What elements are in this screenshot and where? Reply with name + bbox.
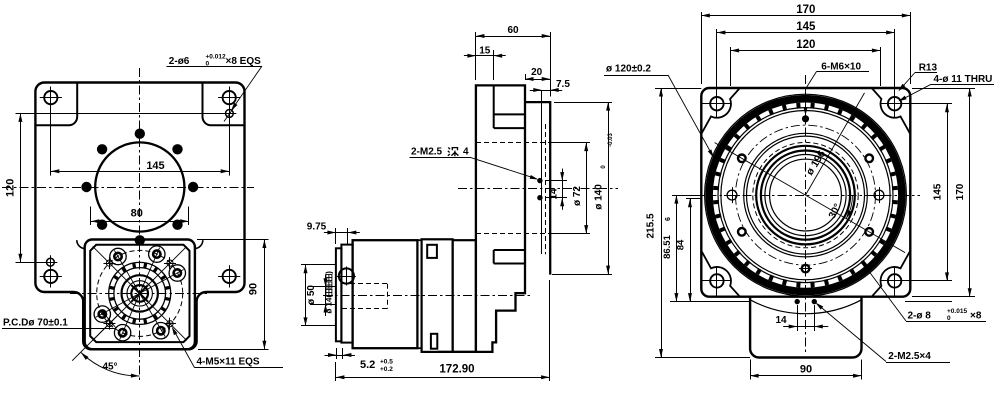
30 deg arc bbox=[846, 195, 852, 219]
svg-text:2-M2.5: 2-M2.5 bbox=[411, 147, 443, 158]
left view corner step notch left bbox=[35, 83, 77, 126]
bearing ring ticks bbox=[165, 287, 170, 288]
svg-text:+0.015: +0.015 bbox=[947, 308, 967, 315]
dim 60 middle bbox=[475, 32, 477, 80]
dim 170 right side bbox=[912, 88, 975, 90]
dim 172.90 bbox=[549, 280, 551, 381]
radial line -30deg bbox=[806, 195, 906, 253]
svg-text:R13: R13 bbox=[919, 62, 938, 73]
svg-text:120: 120 bbox=[5, 179, 17, 197]
dim 90 left view bbox=[197, 239, 269, 241]
motor rear cap body bbox=[341, 245, 352, 343]
svg-text:2-M2.5×4: 2-M2.5×4 bbox=[888, 351, 931, 362]
svg-text:6: 6 bbox=[665, 217, 672, 221]
dim ø140 middle bbox=[554, 102, 612, 104]
bolt circle ø112 dash-dot bbox=[736, 125, 876, 265]
4x locating pins on flange bbox=[167, 260, 173, 266]
motor axis centerline bbox=[323, 295, 531, 297]
motor flange outer outline bbox=[85, 240, 195, 350]
rotary axis centerline bbox=[458, 188, 618, 190]
45 deg dimension arc bbox=[81, 353, 139, 377]
corner ear bottom-right bbox=[872, 251, 911, 297]
svg-text:ø 120±0.2: ø 120±0.2 bbox=[606, 64, 651, 75]
dim 120 top bbox=[730, 47, 732, 86]
front square plate bbox=[701, 88, 910, 297]
svg-text:14: 14 bbox=[775, 315, 787, 326]
svg-text:0: 0 bbox=[947, 315, 951, 322]
svg-text:30°: 30° bbox=[827, 202, 844, 221]
svg-text:ø 50: ø 50 bbox=[306, 285, 317, 305]
screw on motor cap bbox=[339, 268, 354, 283]
svg-text:6-M6×10: 6-M6×10 bbox=[821, 61, 861, 72]
flange bearing ring outer bbox=[109, 262, 171, 324]
corner hole BL bbox=[710, 274, 723, 287]
left view corner step notch right bbox=[203, 83, 245, 126]
svg-text:170: 170 bbox=[796, 4, 815, 16]
2x M2.5 tab holes bbox=[795, 299, 800, 304]
ext line right lower bbox=[905, 301, 952, 303]
clamp lip top bbox=[427, 245, 437, 258]
45 deg diagonal line bbox=[72, 315, 118, 361]
corner hole TL ø11 bbox=[710, 97, 723, 110]
bore circles bbox=[756, 146, 855, 245]
flange radial screw axes bbox=[96, 270, 184, 318]
flange PCD 70 dashed circle bbox=[97, 250, 183, 336]
svg-text:60: 60 bbox=[507, 25, 519, 36]
svg-text:×8 EQS: ×8 EQS bbox=[226, 56, 262, 67]
svg-text:2-ø 8: 2-ø 8 bbox=[908, 311, 932, 322]
dim 90 tab bbox=[750, 360, 752, 380]
svg-text:ø 72: ø 72 bbox=[572, 186, 583, 206]
dim 145 left view bbox=[50, 105, 52, 176]
radial line 60deg to ø196 bbox=[806, 93, 865, 195]
motor body bbox=[353, 240, 418, 348]
dim 14 middle (M2.5 spacing) bbox=[545, 180, 567, 182]
svg-text:5.2: 5.2 bbox=[360, 359, 375, 371]
bottom tab bbox=[750, 297, 861, 358]
front lip edge thin bbox=[541, 90, 543, 254]
hidden motor shaft dashed rect bbox=[342, 283, 387, 285]
svg-text:170: 170 bbox=[955, 183, 966, 200]
svg-text:90: 90 bbox=[247, 283, 259, 295]
radial line 150deg bbox=[715, 143, 806, 196]
svg-text:145: 145 bbox=[933, 183, 944, 200]
corner ear bottom-left bbox=[701, 251, 740, 297]
svg-text:ø 14(: ø 14( bbox=[325, 294, 334, 313]
svg-text:4-ø 11 THRU: 4-ø 11 THRU bbox=[934, 74, 993, 85]
svg-text:4-M5×11 EQS: 4-M5×11 EQS bbox=[197, 357, 260, 368]
motor rear cap outer bbox=[336, 248, 342, 341]
svg-text:): ) bbox=[325, 271, 334, 274]
center bore circle ø72 bbox=[95, 142, 184, 231]
flange bearing ring inner bbox=[114, 268, 166, 320]
gear adapter housing bbox=[453, 240, 476, 352]
flange circle ø30 bbox=[122, 275, 158, 311]
output face plate bbox=[525, 102, 550, 275]
pin hole ø6 top-right bbox=[226, 110, 234, 118]
dim 86.5 left bbox=[672, 195, 701, 197]
8x bolt holes on circle bbox=[188, 182, 198, 192]
shared ext line dots row bbox=[670, 301, 750, 303]
svg-text:×8: ×8 bbox=[970, 311, 982, 322]
svg-text:90: 90 bbox=[800, 364, 812, 376]
ø196 arc in tab bbox=[750, 300, 861, 314]
pin hole ø6 bottom-left bbox=[47, 258, 55, 266]
corner hole BR bbox=[888, 274, 901, 287]
coupling clamp housing bbox=[422, 239, 453, 352]
dim 170 top bbox=[701, 12, 703, 84]
svg-text:-0.03: -0.03 bbox=[608, 133, 614, 147]
dim 145 top bbox=[716, 29, 718, 95]
dim 215.5 left bbox=[655, 88, 701, 90]
M6 hole bottom bbox=[802, 265, 810, 273]
svg-text:2-ø6: 2-ø6 bbox=[169, 56, 190, 67]
motor flange inner chamfered outline bbox=[90, 245, 189, 342]
svg-text:+0.012: +0.012 bbox=[206, 54, 226, 61]
corner hole bottom-right bbox=[223, 270, 236, 283]
dim ø50 motor pilot bbox=[301, 264, 336, 266]
svg-text:172.90: 172.90 bbox=[439, 364, 474, 376]
svg-text:ø 140: ø 140 bbox=[594, 184, 605, 210]
fillet flange-to-plate top-left bbox=[77, 240, 85, 249]
dim 84 left bbox=[686, 198, 701, 200]
svg-text:45°: 45° bbox=[102, 362, 117, 373]
dim ø14 shaft bbox=[310, 286, 336, 288]
svg-text:80: 80 bbox=[131, 207, 143, 219]
svg-text:120: 120 bbox=[796, 39, 815, 51]
centerline horizontal left view bbox=[2, 187, 254, 189]
outer circle ø160 bbox=[705, 94, 907, 296]
corner hole top-right bbox=[223, 91, 236, 104]
svg-text:9.75: 9.75 bbox=[307, 222, 327, 233]
svg-text:P.C.Dø 70±0.1: P.C.Dø 70±0.1 bbox=[3, 318, 68, 329]
flange circle ø21 bbox=[127, 281, 152, 306]
dim 5.2 middle bbox=[336, 348, 338, 359]
dim 120 left view bbox=[16, 113, 229, 115]
hidden bore rectangle dashed bbox=[476, 142, 546, 144]
svg-text:+0.2: +0.2 bbox=[380, 366, 393, 373]
dim ø72 middle bbox=[548, 142, 590, 144]
svg-text:215.5: 215.5 bbox=[646, 213, 657, 238]
flange horizontal centerline bbox=[70, 293, 209, 295]
2x ø8 pin holes bbox=[727, 190, 737, 200]
svg-text:84: 84 bbox=[676, 239, 687, 250]
bottom notch on body bbox=[493, 250, 495, 264]
dim 9.75 middle bbox=[335, 228, 337, 244]
circle pair bbox=[744, 133, 868, 257]
centerline vertical left view bbox=[139, 68, 141, 380]
dim 14 tab bbox=[797, 326, 814, 328]
left view: rear face plate 170x170 with motor tab bbox=[35, 83, 244, 350]
svg-text:145: 145 bbox=[796, 21, 816, 33]
svg-text:86.51: 86.51 bbox=[662, 234, 673, 258]
centerlines right view bbox=[805, 75, 807, 352]
6x M6 holes bbox=[865, 155, 873, 163]
svg-text:4: 4 bbox=[463, 147, 469, 158]
motor front plate bbox=[417, 240, 421, 348]
main body slab and staircase outline bbox=[437, 85, 525, 352]
dim 145 right side bbox=[902, 103, 952, 105]
flange circle ø14 bore bbox=[131, 285, 148, 302]
corner ear top-left bbox=[701, 88, 740, 134]
corner hole TR bbox=[888, 97, 901, 110]
top notch on body bbox=[493, 85, 495, 128]
2x M2.5 holes dots bbox=[537, 178, 542, 183]
flange diagonal lines 45deg bbox=[93, 246, 187, 340]
4x M5 screws bbox=[169, 265, 185, 281]
svg-text:15: 15 bbox=[479, 46, 491, 57]
flange center cross X bbox=[132, 285, 148, 301]
svg-text:20: 20 bbox=[531, 67, 543, 78]
svg-text:145: 145 bbox=[146, 160, 164, 172]
corner hole top-left (4x ø11) bbox=[44, 91, 57, 104]
M6 hole top (leader target) bbox=[802, 115, 809, 122]
corner hole bottom-left bbox=[44, 270, 57, 283]
corner ear top-right bbox=[872, 88, 911, 134]
dim 80 left view bbox=[90, 207, 92, 226]
clamp lip bottom bbox=[431, 334, 437, 349]
svg-text:0: 0 bbox=[601, 165, 607, 169]
dim 7.5 middle bbox=[542, 90, 550, 92]
hatched seal ring bbox=[709, 99, 902, 292]
dim 20 middle bbox=[525, 74, 527, 80]
svg-text:+0.5: +0.5 bbox=[380, 359, 393, 366]
hidden circle dashed bbox=[753, 142, 858, 247]
svg-text:7.5: 7.5 bbox=[556, 79, 570, 90]
tick band bbox=[892, 186, 898, 190]
svg-text:14: 14 bbox=[549, 188, 560, 200]
dim 15 middle bbox=[493, 50, 495, 80]
fillet flange-to-plate top-right bbox=[194, 240, 202, 249]
